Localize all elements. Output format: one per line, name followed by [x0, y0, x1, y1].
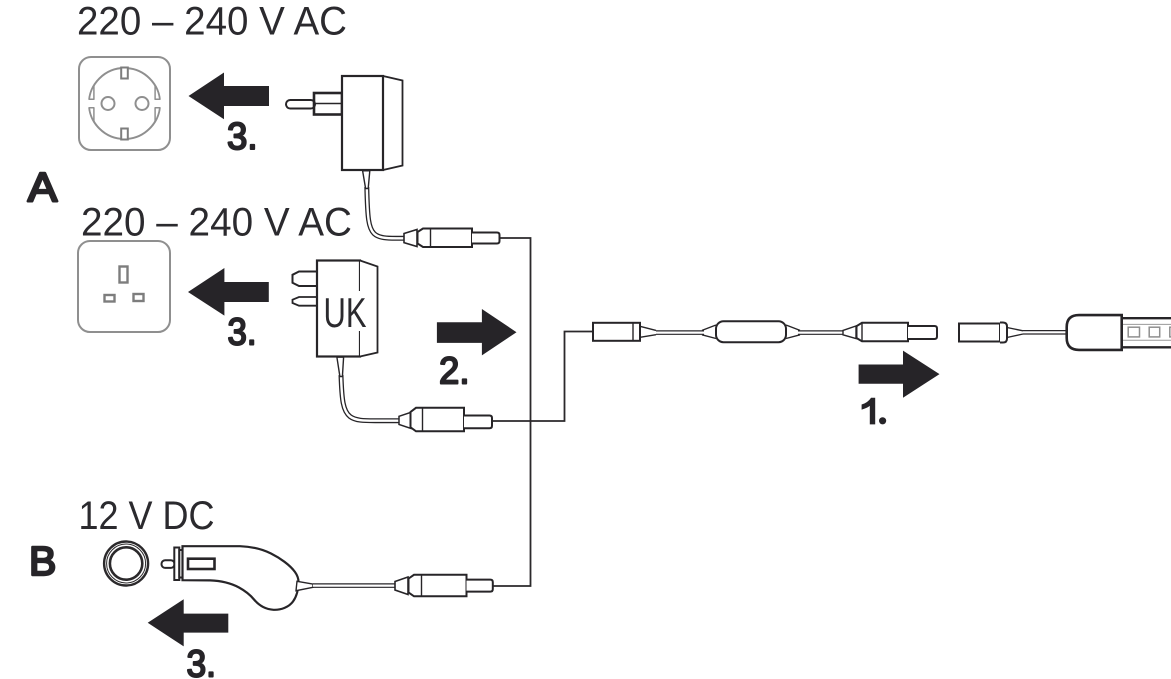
- svg-text:12 V DC: 12 V DC: [79, 494, 215, 538]
- svg-text:2.: 2.: [439, 351, 470, 393]
- svg-text:B: B: [29, 538, 56, 584]
- svg-text:220 – 240 V AC: 220 – 240 V AC: [77, 0, 347, 44]
- svg-text:220 – 240 V AC: 220 – 240 V AC: [81, 201, 352, 245]
- svg-text:3.: 3.: [228, 312, 257, 354]
- svg-text:A: A: [28, 164, 58, 210]
- svg-text:UK: UK: [324, 289, 367, 336]
- svg-text:3.: 3.: [227, 116, 258, 158]
- svg-text:3.: 3.: [187, 644, 217, 679]
